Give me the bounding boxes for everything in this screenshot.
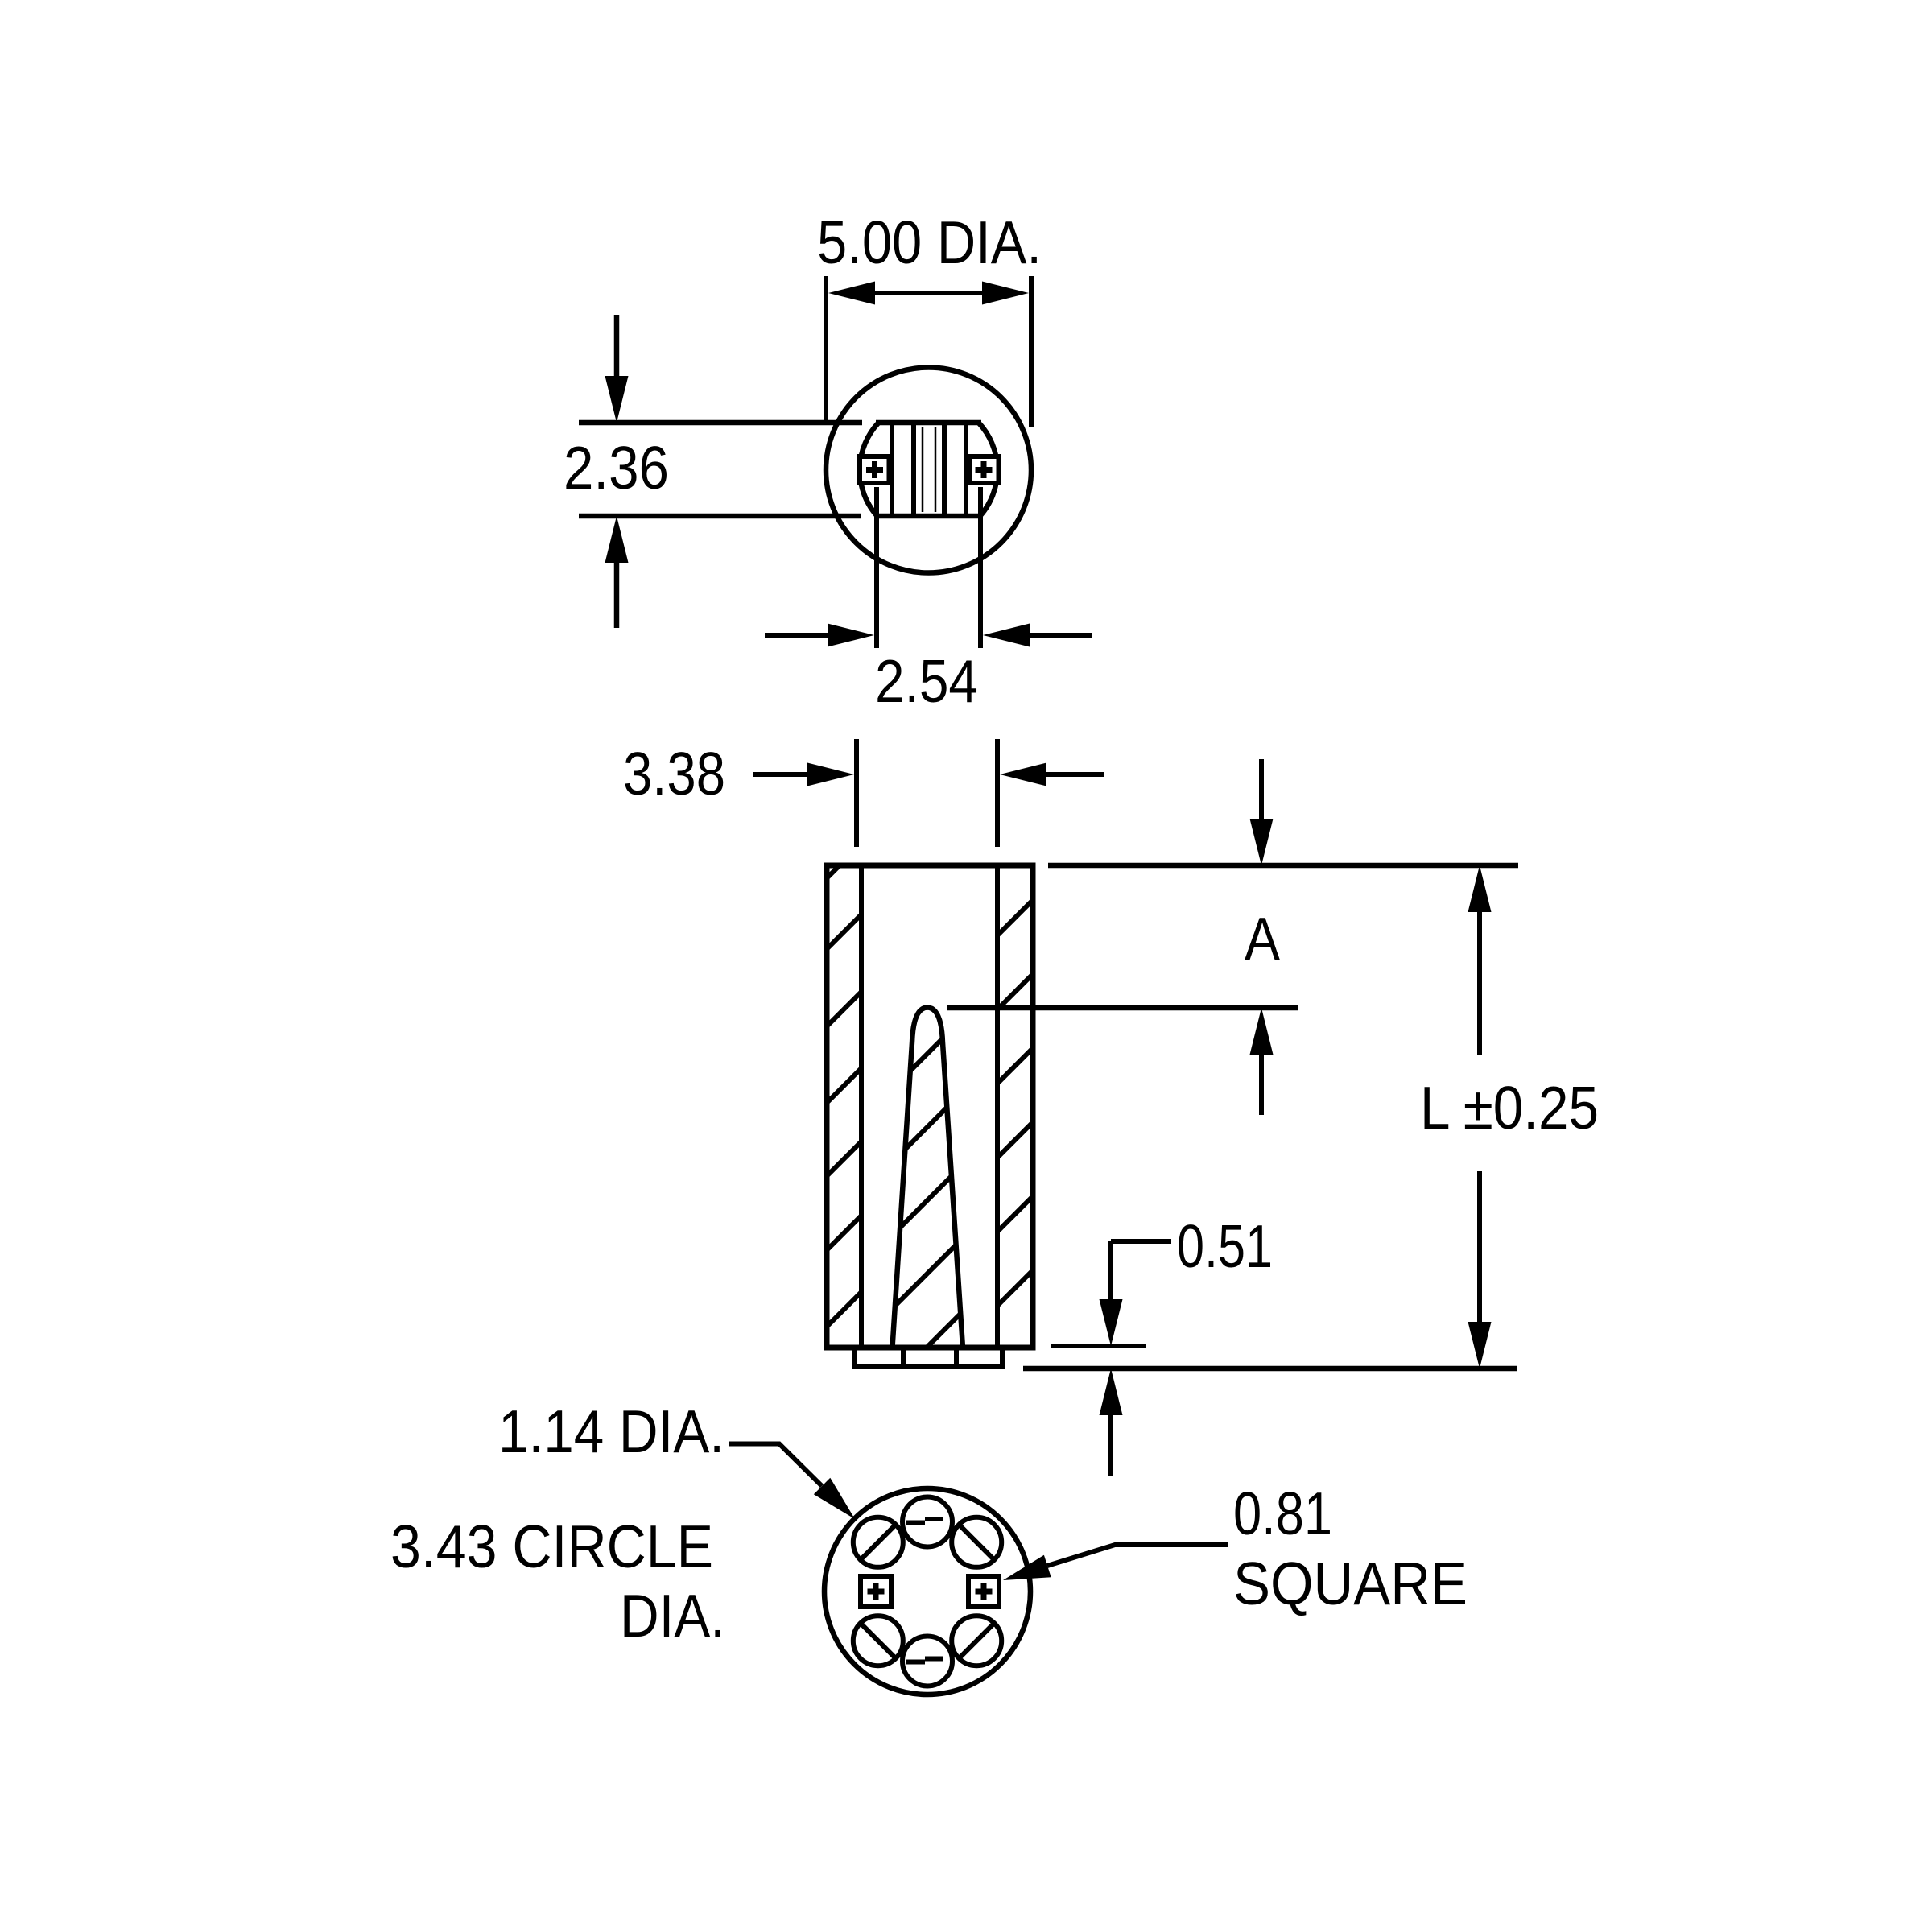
svg-text:0.51: 0.51	[1177, 1212, 1273, 1280]
svg-text:0.81: 0.81	[1233, 1480, 1332, 1547]
svg-text:DIA.: DIA.	[620, 1582, 725, 1649]
svg-text:1.14 DIA.: 1.14 DIA.	[498, 1397, 724, 1465]
svg-text:5.00 DIA.: 5.00 DIA.	[817, 208, 1042, 276]
svg-text:3.43 CIRCLE: 3.43 CIRCLE	[390, 1513, 713, 1580]
svg-text:2.54: 2.54	[875, 647, 978, 715]
svg-text:A: A	[1245, 905, 1280, 972]
svg-text:L ±0.25: L ±0.25	[1420, 1074, 1599, 1141]
svg-text:3.38: 3.38	[623, 740, 725, 807]
svg-text:2.36: 2.36	[563, 434, 669, 502]
svg-text:SQUARE: SQUARE	[1233, 1550, 1468, 1617]
